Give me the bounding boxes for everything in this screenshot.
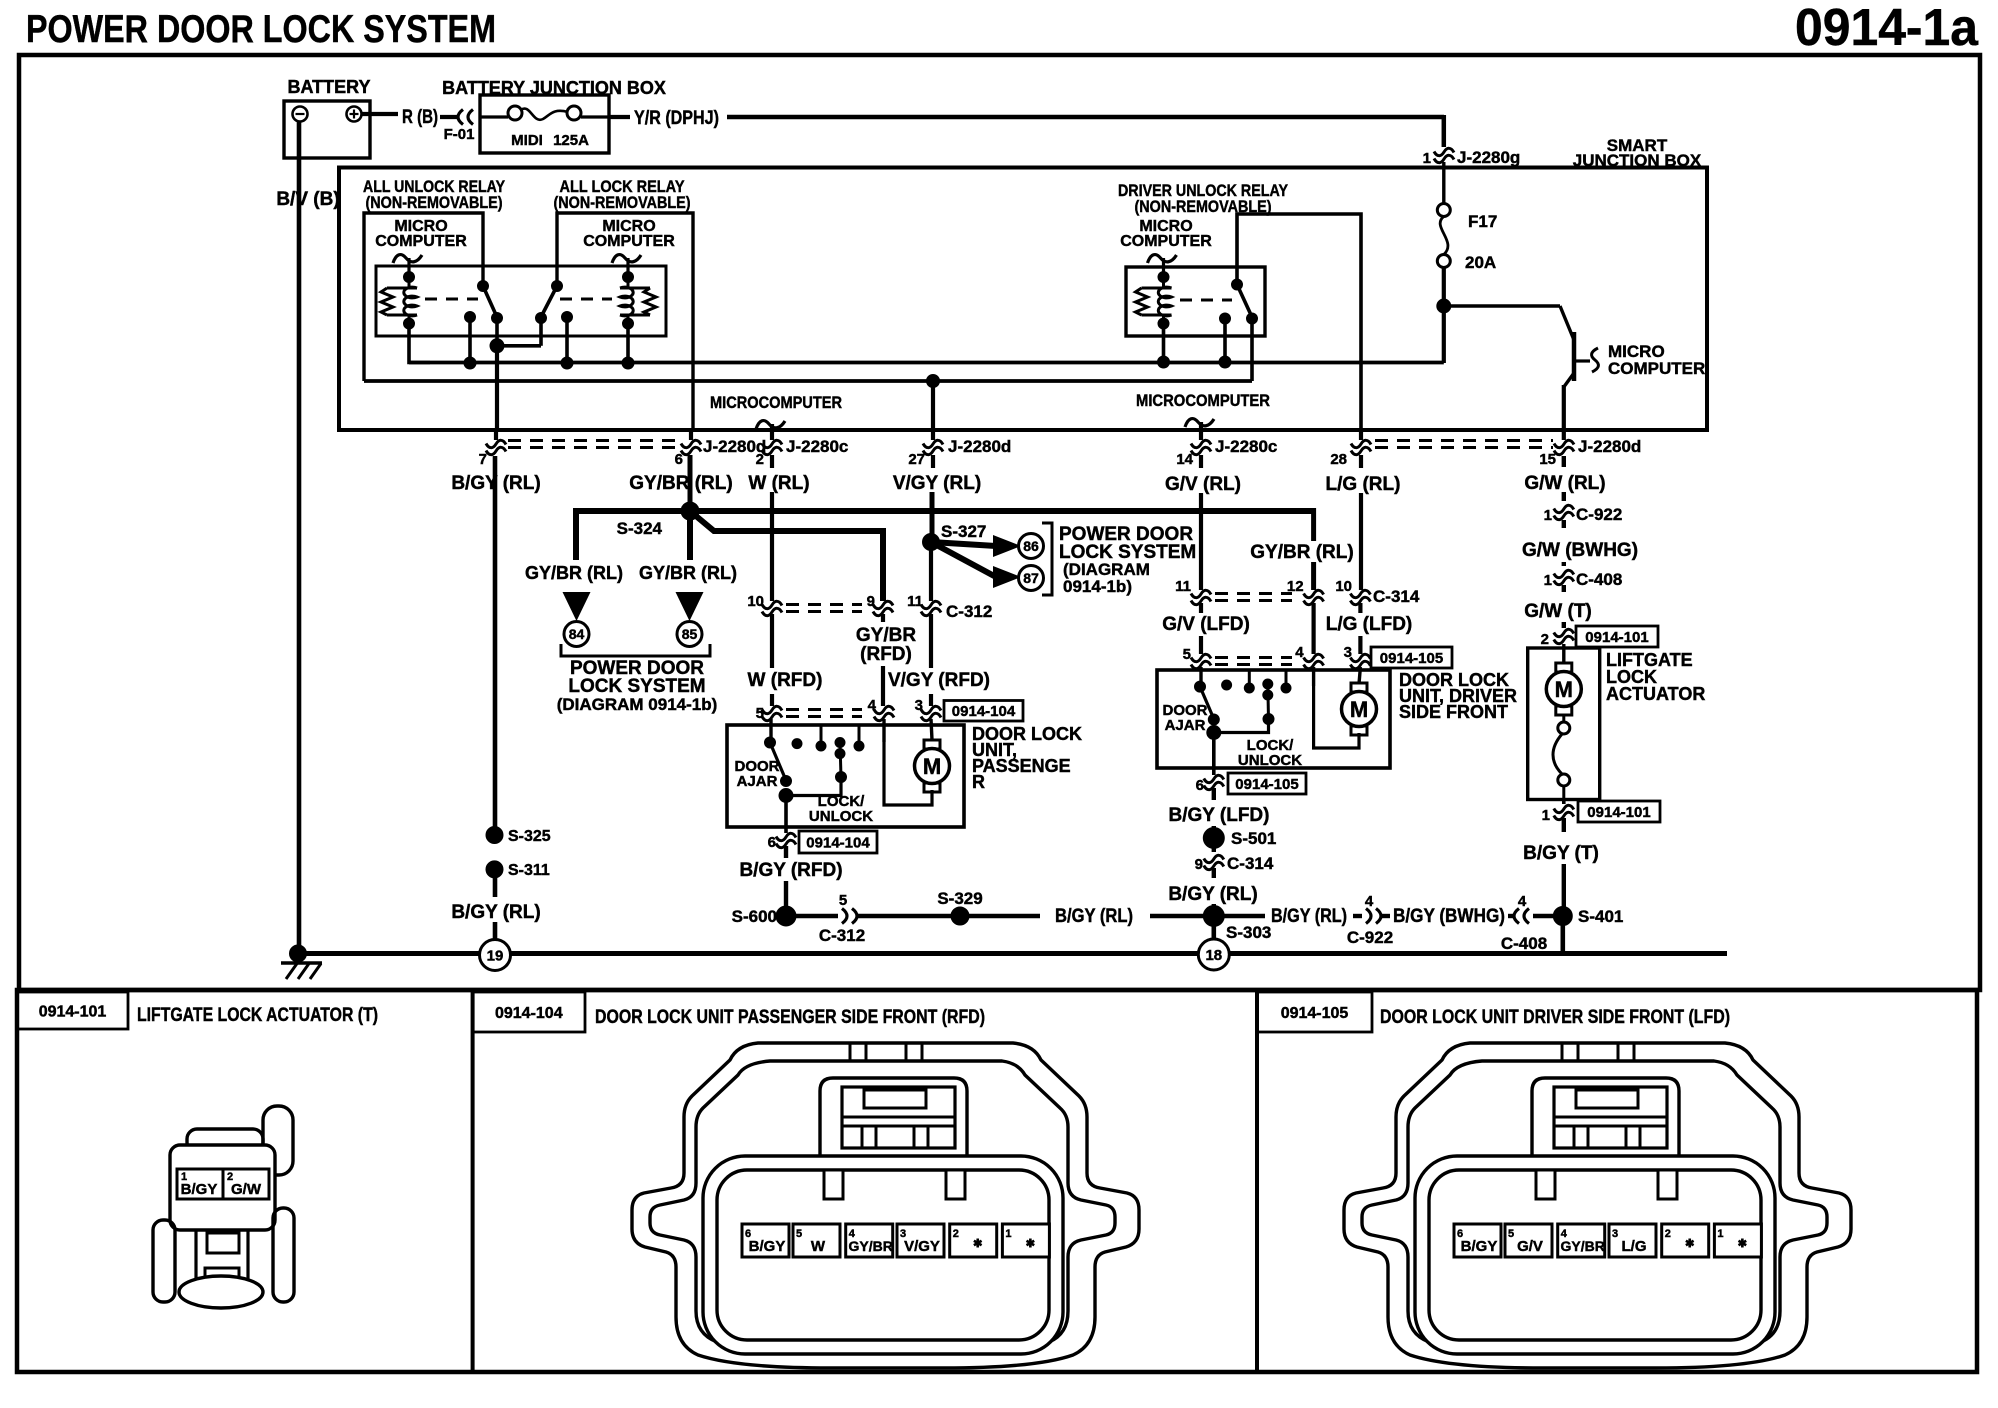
- svg-text:B/GY (BWHG): B/GY (BWHG): [1393, 906, 1505, 927]
- svg-text:V/GY: V/GY: [904, 1238, 940, 1255]
- svg-text:(NON-REMOVABLE): (NON-REMOVABLE): [554, 193, 691, 212]
- fuse MIDI 125A: [480, 115, 508, 118]
- circled 86: [1019, 534, 1044, 559]
- dashed J-2280d 28-15: [1375, 439, 1553, 442]
- svg-text:5: 5: [1508, 1228, 1514, 1240]
- svg-text:GY/BR (RL): GY/BR (RL): [629, 473, 732, 494]
- circled 18 ground: [1198, 939, 1229, 970]
- svg-text:84: 84: [569, 626, 585, 642]
- relay dashed line left: [425, 298, 478, 301]
- label box 0914-105 panel: [1257, 992, 1372, 1032]
- all unlock relay box: [364, 213, 483, 381]
- svg-text:86: 86: [1023, 538, 1039, 554]
- svg-text:M: M: [1555, 677, 1573, 702]
- svg-text:5: 5: [756, 705, 764, 722]
- svg-text:G/V (LFD): G/V (LFD): [1162, 614, 1250, 635]
- relay coil K2 (all lock): [620, 287, 650, 290]
- svg-text:2: 2: [1541, 631, 1549, 648]
- svg-text:G/W (RL): G/W (RL): [1524, 473, 1605, 494]
- svg-text:12: 12: [1287, 578, 1304, 595]
- svg-text:28: 28: [1330, 451, 1347, 468]
- svg-text:V/GY (RFD): V/GY (RFD): [888, 670, 990, 691]
- svg-text:9: 9: [867, 593, 875, 610]
- relay contact stub 1: [468, 317, 472, 363]
- connector 0914-101 pin 1: [1562, 800, 1566, 805]
- connector C-314 pin 11: [1191, 590, 1211, 597]
- wire B/GY (RL) bus lower: [786, 914, 838, 918]
- svg-text:B/GY (RL): B/GY (RL): [1271, 906, 1347, 927]
- svg-text:J-2280d: J-2280d: [1578, 437, 1641, 456]
- svg-text:3: 3: [915, 697, 923, 714]
- svg-text:C-314: C-314: [1373, 587, 1420, 606]
- svg-text:COMPUTER: COMPUTER: [1608, 359, 1705, 378]
- wire B/V (B) battery minus to ground: [297, 121, 302, 953]
- svg-text:POWER DOOR LOCK SYSTEM: POWER DOOR LOCK SYSTEM: [26, 8, 496, 51]
- motor M passenger: [931, 719, 932, 740]
- svg-text:0914-104: 0914-104: [495, 1005, 563, 1022]
- svg-text:3: 3: [1612, 1228, 1618, 1240]
- svg-text:0914-105: 0914-105: [1380, 650, 1443, 667]
- svg-text:S-401: S-401: [1578, 907, 1623, 926]
- svg-text:19: 19: [487, 947, 504, 964]
- wire G/V (LFD) down: [1199, 603, 1203, 613]
- svg-text:✱: ✱: [1685, 1238, 1694, 1250]
- svg-text:B/GY (RL): B/GY (RL): [1168, 884, 1257, 905]
- ground symbol: [290, 945, 307, 962]
- svg-text:10: 10: [1335, 578, 1352, 595]
- svg-text:4: 4: [1365, 893, 1374, 910]
- svg-text:UNLOCK: UNLOCK: [1238, 752, 1302, 769]
- svg-text:S-327: S-327: [941, 522, 986, 541]
- svg-text:GY/BR: GY/BR: [856, 625, 916, 646]
- connector 0914-105 pin 5: [1191, 654, 1211, 661]
- svg-text:W: W: [811, 1238, 826, 1255]
- lock/unlock link driver: [1214, 719, 1269, 733]
- svg-text:ACTUATOR: ACTUATOR: [1606, 684, 1705, 704]
- svg-text:(DIAGRAM 0914-1b): (DIAGRAM 0914-1b): [557, 695, 718, 714]
- wire W (RL) down: [770, 455, 774, 468]
- arrow to pin 84: [563, 592, 591, 621]
- connector C-922 pin 4 inline: [1366, 909, 1371, 924]
- connector C-312 pin 5 inline: [842, 909, 847, 924]
- wire GY/BR (RFD) down: [881, 614, 885, 622]
- wire W (RFD) down: [770, 614, 774, 668]
- svg-text:B/GY (LFD): B/GY (LFD): [1169, 805, 1270, 826]
- splice S-325: [486, 827, 503, 844]
- svg-text:R: R: [972, 772, 985, 792]
- svg-text:S-324: S-324: [617, 519, 663, 538]
- dashed 0914-104: [786, 708, 862, 711]
- svg-text:S-325: S-325: [508, 828, 551, 845]
- svg-text:S-501: S-501: [1231, 829, 1276, 848]
- svg-text:0914-101: 0914-101: [1587, 804, 1650, 821]
- circled 19 ground: [480, 940, 511, 971]
- splice S-303: [1203, 906, 1224, 927]
- driver unlock relay box: [1126, 267, 1265, 336]
- svg-text:9: 9: [1195, 856, 1203, 873]
- svg-text:C-922: C-922: [1347, 928, 1393, 947]
- bottom panels border frame: [17, 990, 1977, 1372]
- svg-text:GY/BR (RL): GY/BR (RL): [639, 563, 737, 583]
- circled 84 power door lock system: [564, 622, 589, 647]
- svg-text:B/GY: B/GY: [749, 1238, 786, 1255]
- svg-text:G/W (T): G/W (T): [1524, 601, 1592, 622]
- svg-text:GY/BR: GY/BR: [1561, 1238, 1605, 1254]
- svg-text:1: 1: [1423, 150, 1431, 167]
- connector 0914-105 pin 3: [1350, 654, 1370, 661]
- connector C-314 pin 10: [1350, 590, 1370, 597]
- svg-text:S-329: S-329: [937, 889, 982, 908]
- bracket under 84/85: [561, 644, 710, 656]
- circled 85 power door lock system: [677, 622, 702, 647]
- wire pin 7 drop: [495, 346, 499, 431]
- wire GY/BR (RL) corner down: [1311, 508, 1316, 541]
- svg-text:B/GY (RL): B/GY (RL): [1055, 906, 1133, 927]
- connector C-314 pin 12: [1304, 590, 1324, 597]
- svg-text:2: 2: [1665, 1228, 1671, 1240]
- label box 0914-104: [944, 701, 1023, 722]
- svg-text:20A: 20A: [1465, 253, 1496, 272]
- svg-text:5: 5: [839, 892, 847, 909]
- dashed J-2280d 7-6: [508, 439, 678, 442]
- svg-text:(RFD): (RFD): [860, 644, 912, 665]
- wire G/V (RL) down: [1199, 455, 1203, 468]
- svg-text:C-922: C-922: [1576, 505, 1622, 524]
- svg-text:3: 3: [1344, 644, 1352, 661]
- svg-text:B/GY: B/GY: [1461, 1238, 1498, 1255]
- wire Y/R to smart junction box: [727, 115, 1444, 120]
- svg-text:87: 87: [1023, 570, 1039, 586]
- relay switch left: [478, 281, 489, 292]
- all lock relay box: [557, 213, 693, 431]
- svg-text:11: 11: [907, 593, 923, 610]
- svg-text:Y/R (DPHJ): Y/R (DPHJ): [634, 108, 719, 129]
- connector J-2280d pin 28: [1359, 431, 1363, 440]
- arrow to pin 87: [931, 542, 996, 577]
- wire label B/GY (T): [1562, 818, 1566, 832]
- arrow to pin 85: [676, 592, 704, 621]
- svg-text:AJAR: AJAR: [1165, 717, 1206, 734]
- svg-text:C-312: C-312: [819, 926, 865, 945]
- svg-text:6: 6: [1196, 777, 1204, 794]
- ground bus: [298, 951, 1727, 956]
- splice S-311: [486, 861, 503, 878]
- svg-text:15: 15: [1539, 451, 1556, 468]
- wire label G/W (T): [1562, 585, 1566, 592]
- wire S-311 to ground circle 19: [493, 876, 498, 897]
- connector J-2280d pin 6: [681, 440, 701, 447]
- driver relay contact stub: [1223, 319, 1227, 363]
- svg-text:C-312: C-312: [946, 602, 992, 621]
- motor M driver: [1359, 667, 1360, 684]
- svg-text:5: 5: [1183, 646, 1191, 663]
- svg-text:0914-104: 0914-104: [806, 834, 870, 851]
- connector C-312 pin 10: [762, 601, 782, 608]
- svg-text:✱: ✱: [1026, 1238, 1035, 1250]
- svg-text:BATTERY: BATTERY: [288, 77, 371, 97]
- wire GY/BR (LFD) down: [1311, 603, 1315, 654]
- svg-text:J-2280c: J-2280c: [786, 437, 848, 456]
- svg-text:S-311: S-311: [508, 862, 550, 879]
- svg-text:85: 85: [682, 626, 698, 642]
- liftgate switch: [1562, 715, 1565, 722]
- splice S-329: [951, 907, 969, 925]
- svg-text:S-303: S-303: [1226, 923, 1271, 942]
- dashed 0914-105: [1215, 656, 1292, 659]
- wire G/W (RL): [1562, 456, 1566, 467]
- connector 0914-101 pin 2: [1562, 622, 1566, 628]
- connector 0914-104 pin 4: [874, 706, 894, 713]
- svg-text:M: M: [1350, 697, 1368, 722]
- svg-text:J-2280d: J-2280d: [948, 437, 1011, 456]
- svg-text:4: 4: [868, 697, 877, 714]
- svg-text:0914-101: 0914-101: [39, 1003, 107, 1020]
- label box 0914-104 lower: [799, 831, 877, 853]
- wire V/GY pin27 down: [931, 455, 935, 468]
- wire label Y/R (DPHJ): [609, 115, 630, 119]
- svg-text:B/GY (RL): B/GY (RL): [451, 902, 540, 923]
- svg-text:11: 11: [1175, 578, 1191, 595]
- svg-text:C-408: C-408: [1501, 934, 1547, 953]
- wire driver coil to bus: [1162, 324, 1166, 363]
- svg-text:5: 5: [796, 1228, 802, 1240]
- wire left coil to bus: [409, 324, 430, 363]
- door lock unit passenger box: [727, 725, 964, 827]
- door lock unit passenger connector drawing: [632, 1043, 1139, 1368]
- svg-text:14: 14: [1176, 451, 1193, 468]
- splice S-600: [776, 906, 796, 926]
- svg-text:GY/BR (RL): GY/BR (RL): [1250, 542, 1353, 563]
- wire L/G (LFD) down: [1358, 603, 1362, 613]
- door ajar switch passenger: [769, 719, 772, 742]
- splice S-327: [923, 534, 940, 551]
- svg-text:UNLOCK: UNLOCK: [809, 808, 873, 825]
- svg-text:C-408: C-408: [1576, 570, 1622, 589]
- svg-text:0914-104: 0914-104: [952, 703, 1016, 720]
- svg-text:M: M: [923, 754, 941, 779]
- connector J-2280d pin 15: [1562, 431, 1566, 440]
- svg-text:LIFTGATE LOCK ACTUATOR (T): LIFTGATE LOCK ACTUATOR (T): [137, 1005, 378, 1026]
- relay inner box: [376, 266, 666, 336]
- wire label B/GY (LFD): [1212, 788, 1216, 800]
- label box 0914-105: [1371, 647, 1452, 668]
- relay switch driver: [1232, 279, 1243, 290]
- svg-text:AJAR: AJAR: [737, 773, 778, 790]
- svg-text:V/GY (RL): V/GY (RL): [893, 473, 981, 494]
- liftgate lock actuator box: [1562, 644, 1565, 662]
- svg-text:LOCK SYSTEM: LOCK SYSTEM: [568, 676, 705, 697]
- svg-text:0914-105: 0914-105: [1235, 776, 1298, 793]
- svg-text:J-2280c: J-2280c: [1215, 437, 1277, 456]
- circled 87: [1019, 566, 1044, 591]
- label box 0914-105 lower: [1228, 773, 1306, 794]
- splice S-401: [1553, 907, 1572, 926]
- svg-text:MICROCOMPUTER: MICROCOMPUTER: [1136, 391, 1270, 410]
- bus F17 output to relay coils: [409, 361, 1444, 365]
- relay coil K1 (all unlock): [387, 287, 417, 290]
- svg-text:W (RFD): W (RFD): [748, 670, 823, 691]
- wire pin 6 driver: [1212, 733, 1216, 776]
- connector C-408 pin 4 inline: [1524, 909, 1529, 924]
- wire pin6 to S-324: [688, 455, 693, 511]
- motor M liftgate: [1556, 663, 1572, 672]
- label box 0914-101 lower: [1578, 801, 1660, 822]
- svg-text:B/GY (RFD): B/GY (RFD): [739, 860, 842, 881]
- svg-text:0914-1b): 0914-1b): [1063, 577, 1132, 596]
- connector 0914-105 pin 4: [1304, 654, 1324, 661]
- relay switch right: [552, 281, 563, 292]
- panel divider 2: [1255, 990, 1259, 1372]
- battery B1: [284, 101, 370, 158]
- bus relay commons (second): [364, 379, 1252, 383]
- connector 0914-105 pin 6: [1204, 775, 1224, 782]
- connector J-2280d pin 27: [923, 440, 943, 447]
- connector C-922 pin 1: [1554, 505, 1574, 512]
- wire L/G (RL) down: [1359, 455, 1363, 468]
- connector J-2280c pin 2: [762, 440, 782, 447]
- label box 0914-101 panel: [17, 992, 128, 1029]
- svg-text:COMPUTER: COMPUTER: [1120, 233, 1212, 250]
- svg-text:18: 18: [1205, 947, 1222, 964]
- svg-text:W (RL): W (RL): [748, 473, 809, 494]
- svg-text:0914-101: 0914-101: [1585, 629, 1648, 646]
- wire B/GY (RL) pin7 chain: [493, 456, 498, 828]
- liftgate actuator connector drawing: [153, 1106, 294, 1308]
- svg-text:1: 1: [1717, 1228, 1723, 1240]
- wire label B/GY (RL) driver: [1212, 868, 1216, 878]
- svg-text:DOOR LOCK UNIT DRIVER SIDE FRO: DOOR LOCK UNIT DRIVER SIDE FRONT (LFD): [1380, 1007, 1730, 1028]
- svg-text:6: 6: [768, 834, 776, 851]
- connector C-314 pin 9 inline: [1204, 855, 1224, 862]
- connector C-408 pin 1: [1554, 570, 1574, 577]
- smart junction box: [339, 168, 1707, 431]
- wire label B/GY (RFD): [784, 846, 788, 858]
- svg-text:✱: ✱: [1738, 1238, 1747, 1250]
- connector 0914-104 pin 6: [776, 833, 796, 840]
- svg-text:F-01: F-01: [444, 126, 475, 143]
- svg-text:4: 4: [1518, 893, 1527, 910]
- svg-text:6: 6: [675, 451, 683, 468]
- fuse F17 20A: [1437, 204, 1450, 217]
- svg-text:10: 10: [747, 593, 764, 610]
- svg-text:COMPUTER: COMPUTER: [375, 233, 467, 250]
- svg-text:PASSENGE: PASSENGE: [972, 756, 1071, 776]
- wire V/GY (RFD) down: [929, 614, 933, 668]
- battery junction box: [480, 95, 609, 153]
- svg-text:L/G (RL): L/G (RL): [1326, 474, 1401, 495]
- svg-text:7: 7: [479, 451, 487, 468]
- svg-text:1: 1: [1005, 1228, 1011, 1240]
- wire S-303 to ground circle 18: [1212, 925, 1217, 938]
- arrow to pin 86: [931, 542, 996, 546]
- svg-text:COMPUTER: COMPUTER: [583, 233, 675, 250]
- relay dashed line right: [560, 298, 612, 301]
- main diagram border frame: [19, 55, 1980, 990]
- svg-text:JUNCTION BOX: JUNCTION BOX: [1573, 151, 1702, 170]
- wire V/GY S-327 down: [929, 549, 933, 601]
- svg-text:1: 1: [1542, 807, 1550, 824]
- wire pin 6 drop: [689, 431, 693, 440]
- svg-text:GY/BR: GY/BR: [849, 1238, 893, 1254]
- connector 0914-104 pin 3: [921, 706, 941, 713]
- relay dashed line driver: [1180, 299, 1232, 302]
- relay coil K3 (driver unlock): [1142, 287, 1172, 290]
- svg-text:L/G: L/G: [1622, 1238, 1647, 1255]
- svg-text:R (B): R (B): [402, 107, 438, 128]
- wire S-324 to GY/BR (RFD) drop: [690, 511, 883, 601]
- svg-text:C-314: C-314: [1227, 854, 1274, 873]
- svg-text:DOOR LOCK UNIT PASSENGER SIDE: DOOR LOCK UNIT PASSENGER SIDE FRONT (RFD…: [595, 1007, 985, 1028]
- door lock unit driver connector drawing: [1344, 1043, 1851, 1368]
- wire S-401 to ground bus: [1561, 925, 1566, 953]
- connector F-01: [468, 110, 473, 125]
- svg-text:MICROCOMPUTER: MICROCOMPUTER: [710, 393, 842, 412]
- splice S-324 bus: [576, 508, 1314, 514]
- wire right coil to bus: [626, 324, 630, 364]
- svg-text:4: 4: [1295, 644, 1304, 661]
- wire driver switch to pin 28: [1237, 214, 1361, 431]
- wire label G/W (BWHG): [1562, 520, 1566, 528]
- svg-text:B/GY: B/GY: [181, 1181, 218, 1198]
- svg-text:(NON-REMOVABLE): (NON-REMOVABLE): [366, 193, 503, 212]
- connector C-312 pin 11: [921, 601, 941, 608]
- panel divider 1: [471, 990, 475, 1372]
- label box 0914-101: [1576, 626, 1658, 647]
- svg-text:F17: F17: [1468, 212, 1497, 231]
- connector J-2280c pin 14: [1191, 440, 1211, 447]
- wire GY/BR branch 1: [573, 508, 579, 560]
- lock/unlock link passenger: [786, 777, 841, 796]
- transistor micro computer output: [1444, 304, 1560, 307]
- svg-text:1: 1: [1544, 572, 1552, 589]
- svg-text:B/V (B): B/V (B): [276, 189, 339, 210]
- label box 0914-104 panel: [473, 992, 585, 1032]
- wire GY/BR branch 2: [687, 511, 693, 560]
- svg-text:1: 1: [1544, 507, 1552, 524]
- svg-text:2: 2: [756, 451, 764, 468]
- splice S-501: [1212, 826, 1216, 852]
- svg-text:125A: 125A: [553, 132, 589, 149]
- svg-text:G/V (RL): G/V (RL): [1165, 474, 1241, 495]
- svg-text:27: 27: [908, 451, 925, 468]
- svg-text:0914-1a: 0914-1a: [1795, 0, 1979, 57]
- svg-text:B/GY (T): B/GY (T): [1523, 843, 1599, 864]
- connector J-2280d pin 7: [494, 431, 498, 440]
- svg-text:G/W: G/W: [231, 1181, 262, 1198]
- wire pin 27 drop: [931, 381, 935, 440]
- bracket right of 86/87: [1042, 523, 1052, 595]
- connector C-312 pin 9: [873, 601, 893, 608]
- door lock unit driver box: [1157, 670, 1390, 768]
- connector 0914-104 pin 5: [762, 706, 782, 713]
- wire pin 6 passenger: [784, 796, 788, 834]
- svg-text:0914-105: 0914-105: [1281, 1005, 1349, 1022]
- dashed C-314: [1215, 592, 1292, 595]
- svg-text:GY/BR (RL): GY/BR (RL): [525, 563, 623, 583]
- svg-text:J-2280g: J-2280g: [1457, 148, 1520, 167]
- svg-text:MIDI: MIDI: [511, 132, 543, 149]
- wire battery plus to R (B): [362, 112, 399, 116]
- svg-text:G/V: G/V: [1517, 1238, 1543, 1255]
- svg-text:SIDE FRONT: SIDE FRONT: [1399, 702, 1508, 722]
- svg-text:G/W (BWHG): G/W (BWHG): [1522, 540, 1638, 561]
- door ajar switch driver: [1199, 667, 1202, 686]
- svg-text:L/G (LFD): L/G (LFD): [1326, 614, 1413, 635]
- relay contact stub 2: [565, 317, 569, 363]
- dashed C-312: [786, 603, 862, 606]
- svg-text:2: 2: [953, 1228, 959, 1240]
- svg-text:✱: ✱: [973, 1238, 982, 1250]
